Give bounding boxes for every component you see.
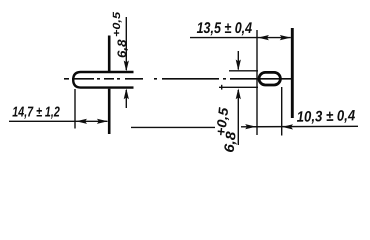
- left plate line (upper segment): [108, 36, 111, 72]
- extension of oval top edge (left): [229, 70, 258, 72]
- dimension 6,8+0,5 (right, vertical): upper tail with down arrow: [237, 51, 239, 70]
- extension line (shared) for 13,5 / 10,3: [256, 30, 258, 135]
- svg-text:10,3 ± 0,4: 10,3 ± 0,4: [296, 107, 355, 126]
- extension line right edge of oval for 10,3: [281, 87, 283, 136]
- stray horizontal line (left part of lower dim line): [131, 126, 215, 128]
- small tick on bottom extension line: [221, 85, 223, 90]
- left plate line (lower segment): [108, 89, 111, 134]
- extension of oval bottom edge (left): [219, 86, 258, 88]
- svg-text:+0,5: +0,5: [111, 12, 123, 37]
- left rod (pin body, rounded left cap, open right end): [73, 72, 133, 88]
- dimension 6,8+0,5 (left) : lower dim line with up arrow: [125, 90, 127, 108]
- dimension line 10,3 with outside arrows: [241, 125, 358, 128]
- centerline (dash-dot axis): [64, 78, 294, 80]
- svg-text:+0,5: +0,5: [213, 106, 231, 136]
- dimension line 14,7 with inside arrows: [9, 120, 108, 122]
- right plate line: [291, 28, 294, 118]
- svg-text:14,7 ± 1,2: 14,7 ± 1,2: [12, 105, 60, 121]
- dimension text 6,8+0,5 (left, rotated): [111, 12, 129, 58]
- dimension 6,8+0,5 (left, vertical) : upper dim line with down arrow: [125, 17, 127, 70]
- dimension 6,8+0,5 (right): lower tail with up arrow: [237, 90, 239, 145]
- right oval (pin head, stadium outline): [259, 72, 280, 85]
- svg-text:13,5 ± 0,4: 13,5 ± 0,4: [197, 20, 253, 37]
- dimension text 6,8+0,5 (right, rotated): [212, 106, 242, 153]
- dimension line 13,5 with inside arrows: [190, 37, 291, 39]
- extension line for 14,7 (left): [74, 89, 76, 129]
- svg-text:6,8: 6,8: [115, 39, 129, 58]
